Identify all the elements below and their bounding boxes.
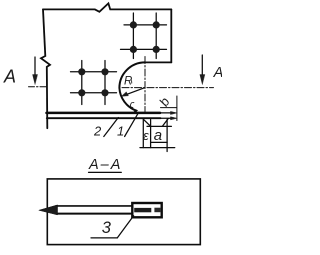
leader 2: [104, 118, 119, 137]
end block inner bar left: [134, 208, 151, 212]
bolt group left: centerline col 2: [104, 61, 106, 105]
bolt group right: centerline row 1: [124, 24, 167, 26]
svg-text:ε: ε: [143, 128, 149, 143]
svg-text:R: R: [124, 76, 132, 88]
leader 3 slant: [117, 216, 133, 238]
leader 1: [125, 113, 139, 137]
arrow b top: [171, 111, 177, 114]
section view frame: [47, 179, 200, 245]
extension line v3: [166, 120, 168, 152]
dimension chain bottom line: [140, 147, 175, 149]
section arrow left: line: [34, 57, 36, 77]
svg-text:3: 3: [102, 219, 112, 237]
section arrow right: head: [200, 75, 205, 85]
bolt left 1: [78, 68, 85, 75]
svg-text:ς: ς: [130, 99, 135, 110]
svg-text:2: 2: [93, 124, 102, 139]
svg-text:1: 1: [117, 124, 124, 139]
section arrow right: line: [201, 55, 203, 77]
svg-text:b: b: [156, 95, 173, 109]
section arrow left: head: [33, 75, 38, 85]
radius line with arrow: [126, 88, 145, 95]
second line thin continuation: [161, 117, 173, 119]
plate top edge with break zigzag: [43, 3, 171, 11]
end block outline: [132, 203, 161, 217]
weld flag diagonal 1: [143, 119, 151, 126]
section title underline: [89, 171, 122, 173]
bolt right 2: [153, 21, 160, 28]
end block inner bar right: [154, 208, 160, 213]
svg-text:A: A: [3, 66, 16, 86]
bolt left 4: [101, 89, 108, 96]
bolt left 3: [78, 89, 85, 96]
bolt group right: centerline col 2: [155, 13, 157, 59]
svg-text:A–A: A–A: [88, 157, 122, 173]
section arrow left: trace stroke: [29, 86, 48, 88]
b extension line: [176, 96, 178, 121]
bar pointed end: [39, 205, 58, 215]
extension line v2: [150, 120, 152, 148]
plate left edge with break zigzag: [41, 9, 50, 128]
bolt right 4: [153, 46, 160, 53]
weld flag horizontal: [147, 125, 171, 127]
notch vertical centerline: [144, 57, 146, 112]
bolt right 1: [130, 21, 137, 28]
bolt group right: centerline col 1: [132, 13, 134, 59]
bolt left 2: [101, 68, 108, 75]
svg-text:A: A: [213, 65, 222, 81]
bolt group left: centerline col 1: [81, 61, 83, 105]
bolt right 3: [130, 46, 137, 53]
notch horizontal centerline / section trace: [122, 87, 214, 89]
lower edge line thick: [47, 112, 161, 115]
svg-text:a: a: [154, 127, 162, 144]
a box bottom: [151, 141, 168, 143]
bar bottom line: [56, 213, 131, 215]
bar top line: [56, 205, 131, 207]
R subscript tick: [131, 81, 133, 84]
leader 3 shelf: [91, 237, 117, 239]
weld flag diagonal 2: [162, 119, 168, 127]
lower second edge line: [47, 117, 161, 119]
extension line v1: [142, 120, 144, 148]
bolt group left: centerline row 1: [71, 71, 117, 73]
tab bottom edge: [145, 61, 172, 63]
notch arc R: [119, 62, 144, 113]
bolt group left: centerline row 2: [71, 92, 117, 94]
b dimension line: [161, 107, 177, 109]
plate right edge (tab): [170, 9, 172, 62]
arrow b bottom: [171, 117, 177, 120]
bolt group right: centerline row 2: [121, 48, 167, 50]
